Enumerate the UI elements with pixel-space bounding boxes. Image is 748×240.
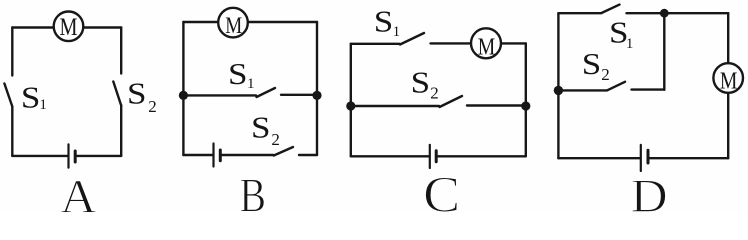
svg-text:2: 2 <box>430 84 439 103</box>
svg-text:1: 1 <box>39 97 47 113</box>
svg-text:M: M <box>60 14 78 41</box>
svg-text:D: D <box>631 170 668 213</box>
svg-text:S: S <box>411 65 431 100</box>
svg-text:S: S <box>582 46 602 81</box>
svg-text:B: B <box>240 167 267 213</box>
svg-text:1: 1 <box>393 24 401 40</box>
svg-text:M: M <box>225 13 242 39</box>
svg-text:2: 2 <box>148 97 157 116</box>
svg-text:2: 2 <box>601 65 610 84</box>
svg-text:C: C <box>423 167 460 213</box>
svg-text:S: S <box>251 110 271 145</box>
svg-text:S: S <box>21 79 41 114</box>
svg-text:S: S <box>127 76 147 111</box>
svg-text:A: A <box>60 172 96 213</box>
svg-text:M: M <box>478 34 496 60</box>
svg-text:2: 2 <box>271 130 280 149</box>
svg-text:S: S <box>374 3 394 38</box>
svg-text:M: M <box>720 68 738 95</box>
svg-text:1: 1 <box>247 76 255 92</box>
svg-text:S: S <box>228 56 248 91</box>
svg-text:1: 1 <box>626 36 634 52</box>
